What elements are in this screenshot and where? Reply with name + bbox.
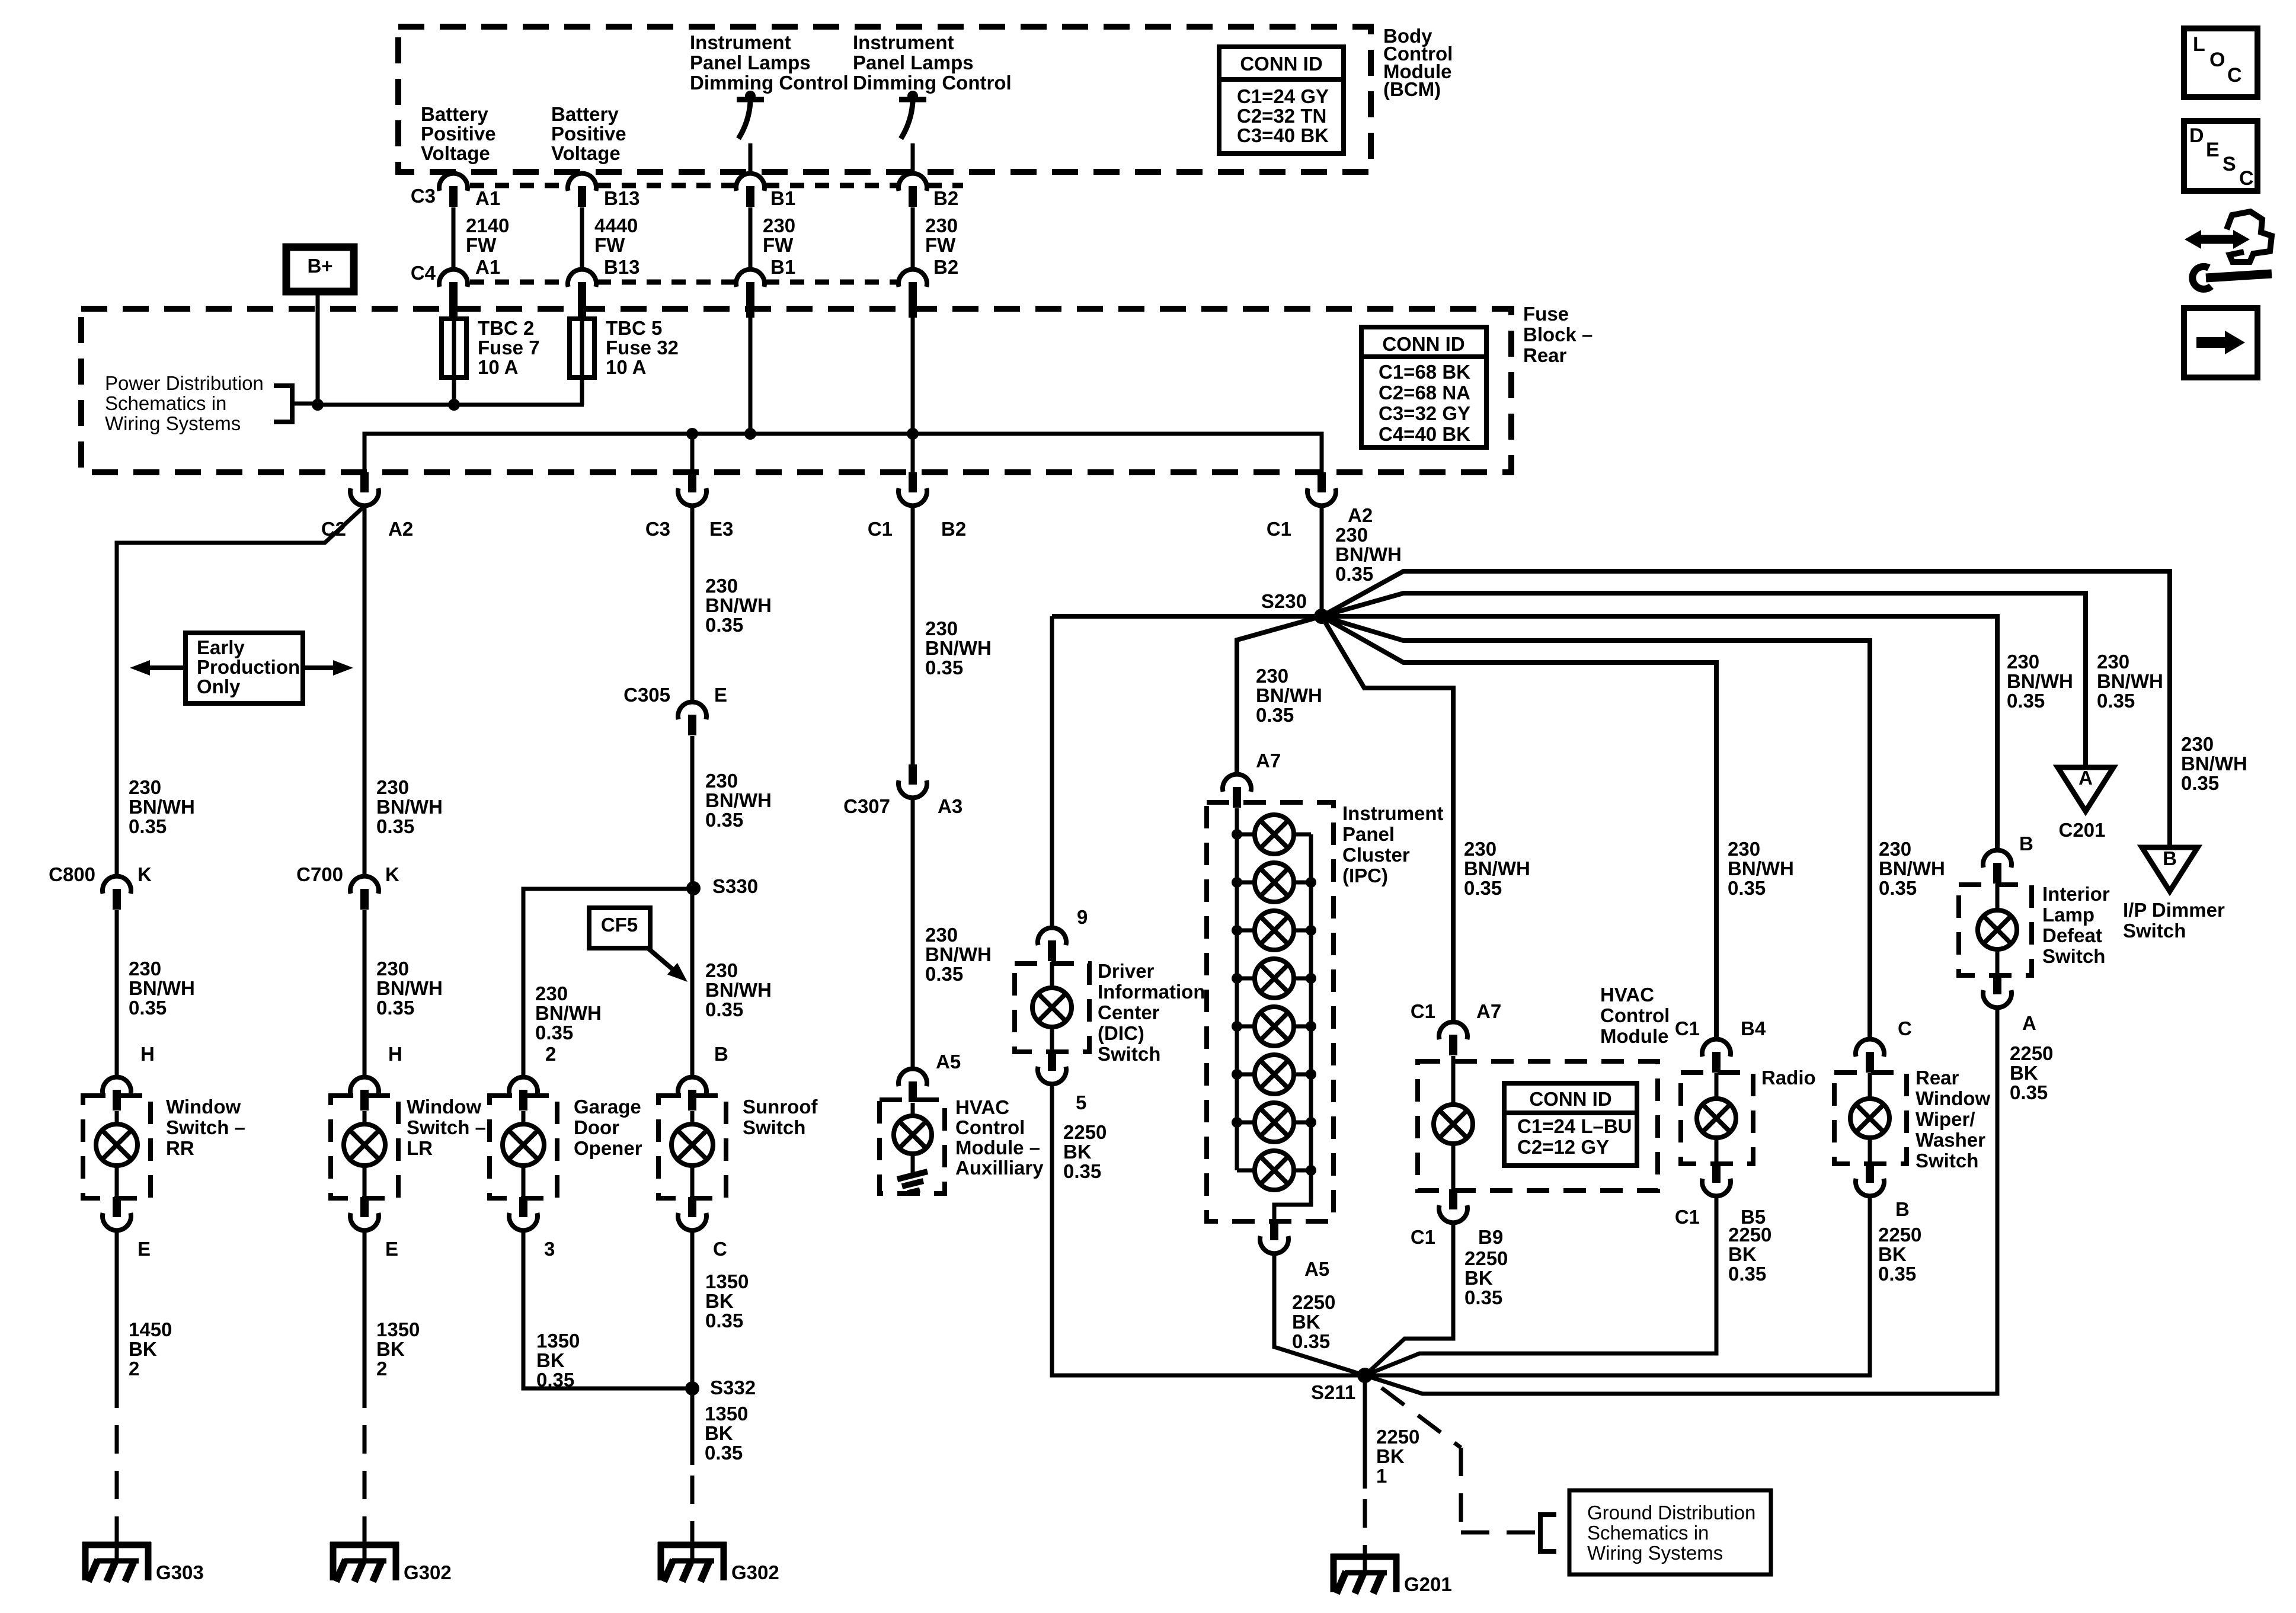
svg-text:2: 2 xyxy=(129,1358,139,1380)
svg-text:230: 230 xyxy=(705,959,738,981)
labels C1 B9 (HVAC CM) xyxy=(1411,1226,1503,1248)
label 230 BN/WH 0.35 (RR) xyxy=(129,958,195,1019)
labels C800 K xyxy=(49,863,152,885)
connector HVAC CM C1/A7 xyxy=(1439,1022,1467,1055)
connector defeat pin B xyxy=(1983,850,2012,884)
conn-id table BCM xyxy=(1219,47,1344,153)
wire S332 to ground xyxy=(690,1388,695,1558)
label Driver Information Center (DIC) Switch xyxy=(1098,960,1205,1065)
label S332 xyxy=(710,1377,756,1398)
svg-text:BN/WH: BN/WH xyxy=(1256,684,1322,706)
B+ terminal box xyxy=(286,247,354,292)
svg-text:BN/WH: BN/WH xyxy=(2097,670,2163,692)
label pin A7 (IPC) xyxy=(1256,750,1281,772)
label pin C (wiper) xyxy=(1898,1017,1912,1039)
svg-text:G302: G302 xyxy=(404,1561,452,1583)
svg-text:230: 230 xyxy=(705,575,738,597)
arrow early production left xyxy=(130,660,186,676)
label 230 BN/WH 0.35 (sunroof) xyxy=(705,959,772,1020)
component box Instrument Panel Cluster xyxy=(1207,802,1334,1221)
lamp IPC 5 xyxy=(1237,1007,1311,1046)
labels C1 A7 (HVAC CM) xyxy=(1411,1000,1501,1022)
svg-text:230: 230 xyxy=(2097,651,2129,673)
label 2250 BK 0.35 (DIC) xyxy=(1063,1121,1107,1182)
svg-text:K: K xyxy=(137,863,152,885)
svg-text:HVAC: HVAC xyxy=(1600,984,1654,1006)
svg-text:0.35: 0.35 xyxy=(2097,690,2135,712)
label pin 9 (DIC) xyxy=(1077,906,1088,928)
svg-text:Voltage: Voltage xyxy=(551,142,621,164)
svg-text:Radio: Radio xyxy=(1761,1067,1816,1089)
svg-text:B+: B+ xyxy=(307,255,332,277)
wire defeat to S211 xyxy=(1365,1008,1997,1394)
svg-text:230: 230 xyxy=(1728,838,1760,860)
component box HVAC Control Module xyxy=(1418,1061,1658,1190)
dimmer rheostat symbol at x=1266 xyxy=(737,91,764,173)
svg-text:Window: Window xyxy=(407,1096,481,1118)
label TBC 2 Fuse 7 10 A xyxy=(478,317,540,378)
svg-text:S: S xyxy=(2223,153,2236,175)
svg-text:A2: A2 xyxy=(1348,504,1373,526)
svg-text:S330: S330 xyxy=(712,875,758,897)
wire S230 to I/P dimmer switch xyxy=(1322,571,2170,847)
component box HVAC Control Module - Auxilliary xyxy=(880,1100,945,1193)
svg-text:BK: BK xyxy=(1728,1243,1757,1265)
component box DIC switch xyxy=(1015,964,1089,1052)
wire IPC lamp rails xyxy=(1237,808,1311,1221)
connector window switch LR pin H xyxy=(350,1077,379,1110)
lamp interior defeat switch xyxy=(1978,884,2017,975)
svg-text:0.35: 0.35 xyxy=(2007,690,2045,712)
connector IPC pin A7 xyxy=(1223,775,1251,808)
svg-text:E3: E3 xyxy=(709,518,733,540)
label 1350 BK 2 (LR) xyxy=(376,1318,420,1380)
svg-text:C4=40 BK: C4=40 BK xyxy=(1379,423,1470,445)
svg-text:0.35: 0.35 xyxy=(1292,1330,1330,1352)
labels C700 K xyxy=(296,863,399,885)
svg-text:1350: 1350 xyxy=(705,1403,748,1425)
svg-text:2250: 2250 xyxy=(1292,1291,1335,1313)
labels connector C1/B2 xyxy=(868,518,966,540)
wire sunroof to S332 xyxy=(690,1231,695,1388)
connector fuse block B2 (row C4) xyxy=(898,270,927,318)
svg-text:Dimming Control: Dimming Control xyxy=(853,72,1012,94)
wire B2 BCM to fuse xyxy=(911,207,915,269)
svg-text:C1=24 GY: C1=24 GY xyxy=(1237,85,1329,107)
svg-text:230: 230 xyxy=(376,958,409,980)
connector C305/E xyxy=(678,702,706,735)
svg-text:Instrument: Instrument xyxy=(853,31,954,53)
svg-text:RR: RR xyxy=(166,1137,194,1159)
svg-text:BK: BK xyxy=(536,1349,565,1371)
svg-text:Panel Lamps: Panel Lamps xyxy=(853,52,974,73)
svg-text:B13: B13 xyxy=(604,256,640,278)
svg-text:B: B xyxy=(2019,833,2033,854)
fuse TBC 2 Fuse 7 10A xyxy=(442,316,466,405)
svg-text:(IPC): (IPC) xyxy=(1342,865,1388,886)
svg-text:A1: A1 xyxy=(475,256,500,278)
svg-text:Driver: Driver xyxy=(1098,960,1155,982)
svg-text:BK: BK xyxy=(1464,1267,1493,1289)
svg-text:0.35: 0.35 xyxy=(925,963,963,985)
wire S230 to interior lamp defeat switch xyxy=(1322,616,1997,850)
connector sunroof switch pin C xyxy=(678,1197,706,1230)
svg-text:A7: A7 xyxy=(1256,750,1281,772)
svg-text:Production: Production xyxy=(197,656,300,678)
svg-text:C2=12 GY: C2=12 GY xyxy=(1517,1136,1609,1158)
lamp HVAC aux xyxy=(894,1103,932,1176)
label pin H (LR) xyxy=(388,1043,402,1065)
lamp rear wiper switch xyxy=(1850,1073,1889,1164)
label pin 3 (garage) xyxy=(544,1238,555,1260)
ground G303 xyxy=(82,1542,204,1583)
connector sunroof switch pin B xyxy=(678,1077,706,1110)
svg-text:TBC 2: TBC 2 xyxy=(478,317,534,339)
label pin A (defeat) xyxy=(2022,1012,2036,1034)
svg-text:C: C xyxy=(2227,64,2242,87)
labels connector C3/E3 xyxy=(645,518,734,540)
wire LR to ground xyxy=(363,1231,367,1558)
connector window switch RR pin H xyxy=(103,1077,131,1110)
svg-text:0.35: 0.35 xyxy=(1335,563,1373,585)
conn-id table fuse block xyxy=(1361,327,1486,447)
splice S332 dot xyxy=(685,1381,699,1396)
label 230 BN/WH 0.35 (radio) xyxy=(1728,838,1794,899)
svg-text:Block –: Block – xyxy=(1523,324,1593,345)
labels connector C1/A2 xyxy=(1267,504,1373,540)
svg-text:Fuse 32: Fuse 32 xyxy=(606,337,679,359)
svg-text:Ground Distribution: Ground Distribution xyxy=(1587,1502,1755,1524)
label 1350 BK 0.35 (garage) xyxy=(536,1330,580,1391)
svg-text:BN/WH: BN/WH xyxy=(705,594,772,616)
label Rear Window Wiper/Washer Switch xyxy=(1916,1067,1990,1172)
svg-text:2140: 2140 xyxy=(466,215,509,236)
svg-text:CF5: CF5 xyxy=(601,914,638,936)
label circuit 230 FW (B1) xyxy=(763,215,795,256)
ground G302 (left) xyxy=(330,1542,452,1583)
wire S330 to sunroof switch xyxy=(690,888,695,1077)
svg-text:C: C xyxy=(1898,1017,1912,1039)
svg-text:2250: 2250 xyxy=(1878,1224,1921,1246)
icon forward arrow xyxy=(2184,308,2257,377)
labels C1 B5 (radio) xyxy=(1675,1206,1766,1228)
wire S230 to radio xyxy=(1322,616,1716,1039)
svg-text:Module –: Module – xyxy=(955,1137,1040,1158)
svg-text:BK: BK xyxy=(1063,1141,1092,1163)
svg-text:B: B xyxy=(714,1043,728,1065)
svg-text:Control: Control xyxy=(1600,1004,1670,1026)
svg-text:C3: C3 xyxy=(411,185,436,207)
module box Fuse Block - Rear xyxy=(81,309,1511,472)
svg-text:Module: Module xyxy=(1600,1025,1668,1047)
label CF5 box xyxy=(589,908,650,948)
labels row C3 xyxy=(411,185,958,209)
connector DIC pin 9 xyxy=(1038,928,1066,961)
svg-text:1350: 1350 xyxy=(536,1330,580,1352)
svg-text:C1: C1 xyxy=(1411,1000,1435,1022)
wire C3/E3 to C305 xyxy=(690,506,695,702)
connector HVAC CM C1/B9 xyxy=(1439,1189,1467,1222)
ground symbol inside HVAC aux xyxy=(897,1172,928,1193)
label HVAC Control Module - Auxilliary xyxy=(955,1096,1044,1179)
svg-text:BN/WH: BN/WH xyxy=(925,637,992,659)
label 230 BN/WH 0.35 (wiper) xyxy=(1879,838,1945,899)
svg-text:Switch: Switch xyxy=(1098,1043,1160,1065)
label HVAC Control Module xyxy=(1600,984,1670,1047)
svg-text:A1: A1 xyxy=(475,187,500,209)
svg-text:Wiring Systems: Wiring Systems xyxy=(1587,1542,1723,1564)
svg-text:C1: C1 xyxy=(1675,1017,1700,1039)
svg-text:Switch: Switch xyxy=(2042,945,2105,967)
svg-text:C: C xyxy=(713,1238,727,1260)
svg-text:0.35: 0.35 xyxy=(1878,1263,1916,1285)
label pin B (sunroof) xyxy=(714,1043,728,1065)
svg-text:0.35: 0.35 xyxy=(925,657,963,679)
wire IPC to S211 xyxy=(1274,1254,1365,1375)
svg-text:BN/WH: BN/WH xyxy=(705,789,772,811)
conn-id table HVAC CM xyxy=(1504,1083,1637,1166)
label 2250 BK 1 xyxy=(1376,1426,1419,1487)
lamp sunroof switch xyxy=(671,1111,713,1198)
svg-text:B: B xyxy=(2163,847,2177,869)
svg-text:C1=68 BK: C1=68 BK xyxy=(1379,361,1470,383)
icon LOC xyxy=(2184,28,2257,97)
label pin C (sunroof) xyxy=(713,1238,727,1260)
svg-text:FW: FW xyxy=(763,234,794,256)
junction dot bus2 B1 xyxy=(744,428,756,440)
svg-text:B13: B13 xyxy=(604,187,640,209)
labels row C4 xyxy=(411,256,958,284)
svg-text:HVAC: HVAC xyxy=(955,1096,1009,1118)
svg-text:BK: BK xyxy=(2010,1062,2038,1084)
svg-text:Panel Lamps: Panel Lamps xyxy=(690,52,811,73)
component box Window Switch - RR xyxy=(83,1096,151,1198)
svg-text:BK: BK xyxy=(376,1338,405,1360)
svg-text:C305: C305 xyxy=(623,684,670,706)
svg-text:5: 5 xyxy=(1076,1092,1086,1113)
svg-text:2250: 2250 xyxy=(1464,1247,1508,1269)
svg-text:BN/WH: BN/WH xyxy=(376,977,443,999)
svg-text:E: E xyxy=(137,1238,151,1260)
connector C307/A3 xyxy=(898,764,927,798)
svg-text:BN/WH: BN/WH xyxy=(1728,857,1794,879)
wire C307 to A5 xyxy=(911,798,915,1068)
wire S230 to C201 xyxy=(1322,593,2086,767)
arrow CF5 xyxy=(647,948,687,982)
connector BCM B2 (row C3) xyxy=(898,174,927,207)
svg-text:Early: Early xyxy=(197,636,245,658)
svg-text:B2: B2 xyxy=(941,518,966,540)
svg-text:230: 230 xyxy=(1879,838,1911,860)
component box Interior Lamp Defeat Switch xyxy=(1959,885,2032,975)
svg-text:0.35: 0.35 xyxy=(1728,877,1766,899)
svg-text:A5: A5 xyxy=(936,1051,961,1073)
svg-text:C201: C201 xyxy=(2059,819,2106,841)
svg-text:C2=68 NA: C2=68 NA xyxy=(1379,382,1470,404)
label Battery Positive Voltage (A1) xyxy=(421,103,496,164)
label 230 BN/WH 0.35 (C700 feed) xyxy=(376,776,443,837)
label pin A5 (HVAC aux) xyxy=(936,1051,961,1073)
svg-text:S230: S230 xyxy=(1261,590,1307,612)
svg-text:0.35: 0.35 xyxy=(1063,1160,1101,1182)
labels connector C2/A2 xyxy=(321,518,413,540)
svg-text:0.35: 0.35 xyxy=(705,614,743,636)
svg-text:1450: 1450 xyxy=(129,1318,172,1340)
svg-text:230: 230 xyxy=(535,982,568,1004)
svg-text:2250: 2250 xyxy=(1728,1224,1771,1246)
svg-text:2: 2 xyxy=(545,1043,556,1065)
svg-text:10 A: 10 A xyxy=(606,356,646,378)
svg-text:TBC 5: TBC 5 xyxy=(606,317,662,339)
connector BCM B13 (row C3) xyxy=(568,174,596,207)
label pin A5 (IPC) xyxy=(1304,1258,1329,1280)
svg-text:Switch: Switch xyxy=(1916,1150,1978,1172)
svg-text:2250: 2250 xyxy=(2010,1042,2053,1064)
svg-text:Battery: Battery xyxy=(421,103,488,125)
label Window Switch - LR xyxy=(407,1096,486,1159)
label 1350 BK 0.35 (below S332) xyxy=(705,1403,748,1464)
label pin H (RR) xyxy=(140,1043,155,1065)
connector defeat pin A xyxy=(1983,974,2012,1007)
label Instrument Panel Cluster (IPC) xyxy=(1342,802,1444,886)
label 2250 BK 0.35 (radio) xyxy=(1728,1224,1771,1285)
svg-text:Voltage: Voltage xyxy=(421,142,490,164)
svg-text:B2: B2 xyxy=(933,187,958,209)
svg-text:0.35: 0.35 xyxy=(376,997,414,1019)
svg-text:Battery: Battery xyxy=(551,103,619,125)
label 2250 BK 0.35 (HVAC CM) xyxy=(1464,1247,1508,1308)
svg-text:Window: Window xyxy=(1916,1087,1990,1109)
svg-text:Fuse: Fuse xyxy=(1523,303,1569,325)
svg-text:0.35: 0.35 xyxy=(705,1310,743,1332)
dimmer rheostat symbol at x=1540 xyxy=(899,91,926,173)
svg-text:BK: BK xyxy=(1292,1311,1320,1333)
label 1350 BK 0.35 (sunroof upper) xyxy=(705,1270,749,1332)
label Fuse Block - Rear xyxy=(1523,303,1593,366)
component box Radio xyxy=(1681,1073,1753,1164)
svg-text:BN/WH: BN/WH xyxy=(376,796,443,818)
svg-text:BN/WH: BN/WH xyxy=(925,943,992,965)
wire B13 BCM to fuse xyxy=(580,207,584,269)
svg-text:BK: BK xyxy=(705,1422,733,1444)
label S211 xyxy=(1311,1381,1355,1403)
label 2250 BK 0.35 (wiper) xyxy=(1878,1224,1921,1285)
svg-text:H: H xyxy=(140,1043,155,1065)
svg-text:4440: 4440 xyxy=(594,215,638,236)
svg-text:G303: G303 xyxy=(156,1561,204,1583)
wire C700 column xyxy=(363,506,367,876)
label 230 BN/WH 0.35 (IPC feed) xyxy=(1256,665,1322,726)
svg-text:B9: B9 xyxy=(1478,1226,1503,1248)
junction dots IPC rails xyxy=(1232,829,1316,1176)
connector wiper pin B xyxy=(1856,1163,1884,1196)
svg-text:I/P Dimmer: I/P Dimmer xyxy=(2123,899,2225,921)
svg-text:2250: 2250 xyxy=(1376,1426,1419,1448)
icon DESC xyxy=(2184,121,2257,191)
wire A1 BCM to fuse xyxy=(452,207,456,269)
label Early Production Only box xyxy=(186,633,303,703)
wire C800 to window switch RR xyxy=(115,910,119,1077)
connector radio C1/B5 xyxy=(1702,1163,1731,1196)
connector garage door opener pin 3 xyxy=(509,1197,538,1230)
svg-text:A7: A7 xyxy=(1476,1000,1501,1022)
label pin B (wiper) xyxy=(1895,1198,1910,1220)
lamp HVAC control module xyxy=(1434,1056,1473,1190)
lamp IPC 3 xyxy=(1237,911,1311,950)
svg-text:230: 230 xyxy=(2007,651,2039,673)
svg-text:Power Distribution: Power Distribution xyxy=(105,372,264,394)
label 1450 BK 2 (RR) xyxy=(129,1318,172,1380)
svg-text:230: 230 xyxy=(376,776,409,798)
connector wiper pin C xyxy=(1856,1039,1884,1073)
svg-text:0.35: 0.35 xyxy=(1464,1286,1502,1308)
lamp garage door opener xyxy=(503,1111,544,1198)
connector C2/A2 xyxy=(350,472,379,505)
wire S230 to rear wiper switch xyxy=(1322,616,1870,1039)
svg-text:B1: B1 xyxy=(770,256,795,278)
svg-text:B: B xyxy=(1895,1198,1910,1220)
label 230 BN/WH 0.35 (C800 feed) xyxy=(129,776,195,837)
label circuit 4440 FW xyxy=(594,215,638,256)
label pin E (LR) xyxy=(385,1238,398,1260)
junction dot bus2 B2 xyxy=(907,428,919,440)
label 230 BN/WH 0.35 (A3) xyxy=(925,924,992,985)
svg-text:BN/WH: BN/WH xyxy=(129,796,195,818)
svg-text:BN/WH: BN/WH xyxy=(535,1002,602,1024)
wire B1 drop to bus2 xyxy=(749,316,753,434)
svg-text:C1=24 L–BU: C1=24 L–BU xyxy=(1517,1115,1632,1137)
connector row C4 link line xyxy=(470,280,898,285)
wire E3 tap xyxy=(690,434,695,472)
svg-text:230: 230 xyxy=(925,215,958,236)
label 230 BN/WH 0.35 (defeat) xyxy=(2007,651,2073,712)
svg-text:230: 230 xyxy=(1256,665,1288,687)
wire S230 to DIC (left horizontal) xyxy=(1052,614,1322,619)
connector row C3 link line xyxy=(470,183,963,188)
arrow early production right xyxy=(303,660,353,676)
svg-text:Center: Center xyxy=(1098,1001,1160,1023)
dashed reference wire to ground distribution note xyxy=(1382,1388,1539,1532)
svg-text:2250: 2250 xyxy=(1063,1121,1107,1143)
svg-text:Panel: Panel xyxy=(1342,823,1395,845)
svg-text:Only: Only xyxy=(197,676,241,697)
connector C700/K xyxy=(350,876,379,910)
label C201 xyxy=(2059,819,2106,841)
lamp IPC 8 xyxy=(1237,1151,1311,1190)
label Window Switch - RR xyxy=(166,1096,245,1159)
label pin B (defeat) xyxy=(2019,833,2033,854)
svg-text:0.35: 0.35 xyxy=(705,1442,743,1464)
svg-text:1350: 1350 xyxy=(376,1318,420,1340)
svg-text:E: E xyxy=(2206,139,2220,161)
label 230 BN/WH 0.35 (E3) xyxy=(705,575,772,636)
label A2 230 BN/WH 0.35 (C1/A2) xyxy=(1335,524,1402,585)
label 230 BN/WH 0.35 (LR) xyxy=(376,958,443,1019)
svg-text:Control: Control xyxy=(955,1116,1025,1138)
svg-text:Interior: Interior xyxy=(2042,883,2110,905)
svg-text:C700: C700 xyxy=(296,863,343,885)
svg-text:A3: A3 xyxy=(938,795,962,817)
label I/P Dimmer Switch xyxy=(2123,899,2225,942)
wire C1/A2 to S230 xyxy=(1320,506,1324,616)
svg-text:Opener: Opener xyxy=(574,1137,642,1159)
svg-text:C3=40 BK: C3=40 BK xyxy=(1237,124,1329,146)
wire S230 to HVAC control module xyxy=(1322,616,1453,1022)
junction dot bus2 E3 xyxy=(686,428,698,440)
svg-text:0.35: 0.35 xyxy=(2010,1081,2048,1103)
svg-text:1: 1 xyxy=(1376,1465,1387,1487)
svg-text:FW: FW xyxy=(466,234,497,256)
